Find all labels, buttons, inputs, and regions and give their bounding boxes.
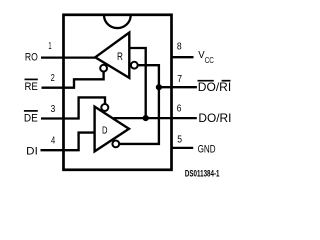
wire receiver non-inverting input to node A xyxy=(129,48,145,118)
svg-text:R: R xyxy=(117,51,123,63)
wire receiver inverting input to driver inverting output (net B) xyxy=(119,65,159,144)
wire pin5 GND xyxy=(172,147,194,149)
receiver inverting input bubble xyxy=(131,62,138,69)
svg-text:7: 7 xyxy=(177,73,182,85)
svg-text:D: D xyxy=(102,126,108,137)
svg-text:5: 5 xyxy=(177,133,182,145)
pin-1 index notch xyxy=(104,15,131,28)
wire pin2 RE to receiver enable bubble xyxy=(42,72,104,88)
driver enable bubble xyxy=(101,104,108,111)
svg-text:CC: CC xyxy=(205,56,214,65)
wire pin1 RO to receiver output xyxy=(41,56,95,58)
junction node B dot xyxy=(156,84,162,90)
wire pin3 DE to driver enable bubble xyxy=(41,97,105,118)
wire pin7 net B xyxy=(159,86,197,88)
svg-text:1: 1 xyxy=(48,40,51,52)
svg-text:2: 2 xyxy=(51,72,55,84)
wire pin4 DI to driver input xyxy=(41,133,94,151)
svg-text:GND: GND xyxy=(198,144,216,156)
pin 3 label overline xyxy=(24,110,38,112)
pin 7 label overline over RI xyxy=(222,80,231,82)
wire pin6 net A (driver output to pin 6) xyxy=(114,117,197,119)
svg-text:6: 6 xyxy=(177,103,182,115)
svg-text:8: 8 xyxy=(177,40,182,52)
svg-text:RO: RO xyxy=(25,52,38,64)
pin 7 label overline over DO xyxy=(198,80,214,82)
driver inverting output bubble xyxy=(112,141,119,148)
svg-text:DO/RI: DO/RI xyxy=(198,111,231,125)
driver U1B triangle D xyxy=(95,107,129,152)
wire pin8 VCC xyxy=(172,56,194,58)
svg-text:3: 3 xyxy=(51,103,56,115)
junction node A dot xyxy=(143,115,149,121)
svg-text:DS011384-1: DS011384-1 xyxy=(185,169,220,179)
svg-text:DO/RI: DO/RI xyxy=(198,80,231,94)
svg-text:DI: DI xyxy=(26,145,38,157)
pin 2 label overline xyxy=(25,78,38,80)
svg-text:DE: DE xyxy=(24,113,38,125)
receiver U1A triangle R xyxy=(95,33,129,78)
svg-text:4: 4 xyxy=(51,135,55,147)
receiver enable bubble xyxy=(100,65,107,72)
IC body U1 outline xyxy=(64,15,172,170)
svg-text:RE: RE xyxy=(25,81,38,93)
